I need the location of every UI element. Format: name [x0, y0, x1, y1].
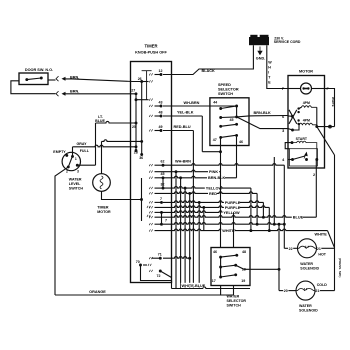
start switch mid terminal [305, 158, 308, 161]
junction yel-blk A column [219, 150, 222, 153]
svg-text:44: 44 [213, 100, 217, 104]
wire P left [288, 88, 301, 90]
contact gap row 7b [149, 211, 152, 213]
cold water solenoid [296, 281, 315, 300]
water level terminal EMPTY [65, 154, 68, 157]
label BLUE backing [292, 215, 303, 219]
timer row 12 stub [155, 74, 162, 76]
svg-text:BLACK: BLACK [202, 69, 216, 73]
svg-text:BLUE: BLUE [293, 216, 304, 220]
wire 18 out [236, 265, 279, 269]
contact gap row 43 [149, 105, 152, 107]
speed sel contact B4 [235, 134, 238, 137]
svg-text:RED: RED [209, 192, 217, 196]
motor main winding 2 coil [299, 123, 317, 126]
wire YELLOW lower [162, 211, 234, 213]
svg-text:HOT: HOT [318, 252, 326, 256]
svg-text:71: 71 [158, 253, 162, 257]
contact gap row 49 [149, 129, 152, 131]
svg-text:WATER: WATER [69, 178, 82, 182]
contact gap row 48 [149, 115, 152, 117]
svg-text:BRN.: BRN. [70, 89, 79, 93]
vertical wire x=274.3 [273, 157, 275, 224]
wire cold right [320, 290, 335, 292]
wire 6 stub [288, 115, 292, 117]
contact gap row 72 [149, 270, 152, 272]
wire WH-BRN lower [163, 164, 284, 166]
vertical wire x=250.9 [250, 188, 252, 231]
protector dot L [302, 87, 304, 89]
svg-text:45: 45 [161, 172, 165, 176]
svg-text:4: 4 [282, 158, 285, 162]
contact gap purple2 row [149, 206, 152, 208]
svg-text:7: 7 [165, 219, 167, 223]
speed sel contact B1 [235, 105, 238, 108]
timer lower bus [141, 178, 143, 221]
timer row 70 stub [143, 264, 147, 266]
wire PURPLE 2 [155, 206, 270, 208]
wire 3 to winding2 [293, 125, 300, 130]
svg-text:BRN-BLK: BRN-BLK [208, 176, 226, 180]
wire WHITE plug drop [267, 45, 288, 88]
speed selector switch box [210, 98, 249, 146]
timer box [131, 62, 172, 283]
motor contact sw dn1 [297, 119, 299, 121]
junction 24 end [283, 223, 286, 226]
speed sel link B1-B2 [236, 106, 238, 117]
vertical wire x=263.4 [262, 202, 264, 217]
speed sel contact B3 [235, 123, 238, 126]
timer terminal 24 [160, 223, 163, 226]
timer row 45 stub [155, 177, 164, 179]
junction brn-blk [179, 176, 182, 179]
timer terminal 45 [162, 176, 165, 179]
timer junction 27b [135, 98, 138, 101]
vertical wire x=185.1 [184, 188, 186, 288]
wsel contact R3 [234, 273, 237, 276]
label YELLOW lower backing [222, 210, 238, 214]
wire hot left b [293, 247, 297, 249]
wire timer motor return [102, 191, 142, 199]
svg-text:46: 46 [239, 140, 243, 144]
svg-text:E: E [268, 81, 271, 85]
contact gap white row [149, 229, 152, 231]
junction pink [175, 170, 178, 173]
svg-text:62: 62 [161, 160, 165, 164]
svg-text:4PM: 4PM [303, 119, 310, 123]
svg-text:4PM: 4PM [303, 101, 310, 105]
vertical wire x=257.1 [256, 193, 258, 224]
water level terminal 1 FULL [71, 155, 74, 158]
contact gap row 45 [149, 177, 152, 179]
svg-text:PURPLE: PURPLE [225, 201, 241, 205]
wire 4 stub [288, 159, 293, 161]
svg-text:MOTOR: MOTOR [299, 70, 313, 74]
start switch enclosure [290, 149, 318, 166]
junction 18 cold [278, 268, 281, 271]
svg-text:25: 25 [132, 125, 136, 129]
svg-text:SERVICE CORD: SERVICE CORD [274, 40, 301, 44]
wire door switch right to connector [48, 79, 56, 81]
centrifugal switch blade B [289, 110, 297, 124]
vertical wire x=189.7 [189, 193, 191, 288]
vertical wire x=199.2 [198, 202, 200, 288]
timer row 71 stub [152, 257, 161, 259]
timer inner link 7b-24 [161, 212, 163, 224]
timer inner link 45-32 [162, 178, 164, 188]
stub row 27b [136, 99, 149, 101]
wsel stub right down [233, 286, 235, 296]
label YELLOW upper backing [205, 186, 221, 190]
wire speed sel A-col down [220, 137, 222, 145]
svg-text:36: 36 [139, 156, 143, 160]
wire term1 up [72, 147, 74, 156]
wire 72 diagonal [160, 271, 171, 278]
svg-text:COLD: COLD [317, 283, 328, 287]
vertical wire x=203.8 [203, 207, 205, 230]
timer terminal 70 [139, 264, 142, 267]
svg-text:26: 26 [138, 77, 142, 81]
wire BRN lower to timer [65, 93, 137, 95]
vertical wire x=180.6 [180, 178, 182, 289]
protector bar [304, 88, 309, 90]
contact gap row 27b [149, 99, 152, 101]
wire PINK [155, 170, 221, 172]
svg-text:WATER: WATER [300, 262, 313, 266]
vertical wire x=193.4 [192, 131, 194, 289]
junction white a [249, 229, 252, 232]
timer motor coil [100, 176, 103, 189]
wire junction diagonal to white bus [317, 127, 335, 155]
svg-text:GRAY: GRAY [76, 142, 87, 146]
timer terminal 72 [159, 270, 162, 273]
vertical wire x=236.5 [236, 146, 238, 178]
start winding left loop [285, 143, 292, 149]
service cord plug [249, 37, 269, 45]
wire WHITE-BLUE [172, 287, 251, 289]
svg-text:48: 48 [159, 110, 163, 114]
svg-text:WHITE: WHITE [331, 97, 335, 107]
wire ORANGE bottom [55, 294, 234, 296]
contact gap row 12 [149, 73, 152, 75]
hot water solenoid [298, 239, 317, 258]
vertical wire x=220.5 [220, 146, 222, 248]
svg-text:RED-BLU: RED-BLU [174, 125, 191, 129]
label PURPLE 1 backing [224, 200, 240, 204]
contact gap row 71 [149, 257, 152, 259]
motor contact sw up2 [297, 111, 299, 113]
wire cold left b [288, 290, 296, 292]
connector on motor common [329, 125, 332, 128]
motor contact sw dn2 [297, 123, 299, 125]
wire BLACK plug drop [163, 45, 253, 74]
water level terminal 3 [76, 164, 79, 167]
wire P to right bus [325, 89, 335, 127]
start switch terminal 4 [291, 158, 294, 161]
motor terminal 3 [291, 129, 294, 132]
wire cold left a [279, 290, 283, 292]
svg-text:SPEED: SPEED [218, 83, 231, 87]
label WHITE left backing [221, 229, 234, 233]
timer terminal 62 [162, 164, 165, 167]
contact gap row 7 [149, 201, 152, 203]
svg-text:WHITE-BLUE: WHITE-BLUE [182, 284, 206, 288]
wire WHITE row [155, 229, 328, 231]
stub row 26 [142, 81, 149, 83]
wire WH-BRN timer to speed selector [163, 105, 237, 107]
speed sel blade 2 [221, 116, 237, 119]
svg-text:3: 3 [282, 129, 284, 133]
wire hot left a [284, 247, 288, 249]
wsel blade 2 [221, 265, 236, 267]
svg-text:45: 45 [230, 118, 234, 122]
svg-text:FULL: FULL [80, 149, 90, 153]
junction blue [262, 216, 265, 219]
timer row 32 stub [155, 187, 164, 189]
junction 71 [188, 257, 191, 260]
hot water solenoid coil [298, 246, 317, 248]
wire junction to right bus [317, 126, 335, 128]
vertical wire x=233.5 [233, 212, 235, 247]
svg-text:PURPLE: PURPLE [225, 206, 241, 210]
wsel contact L2 [219, 266, 222, 269]
svg-text:47: 47 [213, 138, 217, 142]
motor contact sw up1 [297, 107, 299, 109]
sw up link [299, 107, 302, 108]
wire 71 out [163, 257, 190, 259]
svg-text:WH-BRN: WH-BRN [175, 160, 191, 164]
wire RED-BLU [163, 130, 193, 132]
motor box [288, 76, 325, 169]
contact gap pink row [149, 171, 152, 173]
svg-text:17: 17 [212, 279, 216, 283]
wsel contact L1 [219, 256, 222, 259]
start switch blade [293, 156, 306, 160]
timer terminal 12 [160, 73, 163, 76]
start switch actuator arrow [304, 153, 307, 159]
vertical wire x=279.0 [278, 224, 280, 290]
speed sel blade 4 [221, 135, 237, 137]
timer contact 28 [135, 149, 138, 152]
timer row 24 stub [155, 223, 162, 225]
wsel contact L3 [219, 276, 222, 279]
svg-text:7: 7 [160, 197, 162, 201]
timer contact 36 [140, 153, 143, 156]
wsel stub left down [220, 286, 222, 296]
wire yel-blk to A column [202, 151, 220, 153]
wire BRN-BLK middle [163, 176, 237, 178]
contact gap blue row [149, 216, 152, 218]
wire 70 down and right [141, 265, 172, 281]
speed sel contact A1 [219, 107, 222, 110]
svg-text:27: 27 [131, 89, 135, 93]
svg-text:6: 6 [282, 115, 284, 119]
svg-text:22: 22 [289, 247, 293, 251]
contact gap row 62 [149, 164, 152, 166]
svg-text:MOTOR: MOTOR [97, 210, 111, 214]
svg-text:P: P [327, 87, 330, 91]
sw dn link [299, 123, 300, 126]
svg-text:KNOB-PUSH OFF: KNOB-PUSH OFF [135, 51, 167, 55]
svg-text:(PRESS. SW.): (PRESS. SW.) [338, 258, 342, 277]
timer row 7b stub [155, 211, 162, 213]
speed sel contact B2 45 [235, 115, 238, 118]
timer terminal 71 [159, 257, 162, 260]
timer contact 25 [135, 122, 138, 125]
svg-text:1: 1 [75, 157, 77, 161]
svg-text:SELECTOR: SELECTOR [227, 299, 247, 303]
wire full row [73, 145, 137, 147]
wire YEL-BLK [163, 115, 202, 117]
start winding left terminal [291, 141, 294, 144]
wire white bus right side [334, 155, 336, 291]
svg-text:21: 21 [315, 289, 319, 293]
timer row 62 stub [155, 164, 164, 166]
timer junction busA full [135, 145, 138, 148]
contact gap lower bus a [147, 206, 150, 208]
wsel blade 1 [221, 255, 237, 257]
wire speed sel B-col down [236, 137, 238, 146]
door switch SW1 [19, 73, 48, 85]
wire PURPLE 1 [163, 201, 263, 203]
wire RED [155, 192, 258, 194]
wire lt.blue to term3 [77, 164, 95, 166]
svg-text:SELECTOR: SELECTOR [218, 87, 239, 91]
svg-text:BRN-BLK: BRN-BLK [254, 111, 272, 115]
svg-text:I: I [268, 71, 269, 75]
timer motor junction [140, 198, 143, 201]
wire P right [312, 88, 325, 90]
wire BRN-BLK speed to motor [237, 116, 288, 117]
wire hot right [321, 247, 334, 249]
svg-text:28: 28 [134, 151, 138, 155]
svg-text:ORANGE: ORANGE [89, 290, 106, 294]
motor junction windings [315, 125, 318, 128]
timer terminal 43 [160, 105, 163, 108]
svg-text:70: 70 [136, 260, 140, 264]
motor start winding coil [292, 141, 317, 159]
svg-text:2: 2 [66, 170, 68, 174]
svg-text:WHITE: WHITE [315, 232, 328, 236]
speed sel contact A3 [219, 125, 222, 128]
wire speed sel to motor 3 [237, 117, 293, 130]
wire white-blue drop [171, 281, 173, 289]
door switch blade [27, 78, 42, 80]
vertical wire x=269.3 [268, 207, 270, 230]
centrifugal switch blade A [289, 110, 297, 124]
svg-text:P: P [282, 87, 285, 91]
junction 24 c [278, 223, 281, 226]
wire BLUE [155, 216, 317, 218]
speed sel blade 1 [221, 106, 237, 109]
water level switch blade [68, 157, 72, 167]
wire GRAY upper [102, 140, 142, 142]
junction 24 b [273, 223, 276, 226]
label BRN-BLK middle backing [207, 176, 225, 180]
svg-text:PINK: PINK [209, 170, 218, 174]
svg-text:2: 2 [313, 173, 315, 177]
motor protector [301, 83, 312, 94]
svg-text:21: 21 [317, 247, 321, 251]
wsel contact R2 [234, 264, 237, 267]
timer bus B [141, 82, 143, 155]
wire BLACK row hops [162, 74, 164, 76]
contact gap row 32 [149, 187, 152, 189]
svg-text:SWITCH: SWITCH [227, 304, 242, 308]
svg-text:12: 12 [159, 69, 163, 73]
wire water level 2 down [55, 167, 68, 295]
timer row 48 stub [155, 115, 162, 117]
wire white diagonal to hot [328, 231, 335, 248]
timer contact 27 [135, 92, 138, 95]
svg-text:43: 43 [159, 100, 163, 104]
svg-text:48: 48 [242, 250, 246, 254]
svg-text:46: 46 [213, 250, 217, 254]
svg-text:WH-BRN: WH-BRN [184, 101, 200, 105]
door switch terminal left [25, 78, 28, 81]
svg-text:3: 3 [77, 170, 79, 174]
svg-text:SOLENOID: SOLENOID [300, 267, 319, 271]
wire yel-blk drop [201, 116, 203, 152]
timer terminal 7b [160, 211, 163, 214]
svg-text:DOOR SW. N.O.: DOOR SW. N.O. [25, 68, 53, 72]
speed sel contact A2 [219, 116, 222, 119]
motor terminal 6 [291, 115, 294, 118]
svg-text:SOLENOID: SOLENOID [299, 309, 318, 313]
label RED backing [208, 191, 217, 195]
contact gap row 26 [149, 80, 152, 82]
svg-text:19: 19 [241, 279, 245, 283]
timer terminal 7 [160, 201, 163, 204]
contact gap row 24 [149, 223, 152, 225]
cold water solenoid coil [296, 289, 315, 291]
timer cam bar [142, 71, 152, 100]
label WHITE-BLUE backing [181, 283, 204, 288]
wire row 24 [163, 223, 284, 225]
speed sel contact A4 [219, 136, 222, 139]
water level switch [62, 152, 80, 170]
vertical wire x=176.0 [175, 172, 177, 289]
start switch right terminal [315, 158, 318, 161]
door switch terminal right [40, 77, 43, 80]
junction red [188, 192, 191, 195]
timer row 49 stub [155, 130, 162, 132]
svg-text:BRN.: BRN. [70, 76, 79, 80]
connector on BRN wire 1 [56, 76, 59, 81]
svg-text:SWITCH: SWITCH [69, 187, 84, 191]
wire door switch loop left-down [11, 81, 56, 94]
connector on BRN wire 2 [56, 91, 59, 96]
svg-text:T: T [268, 76, 271, 80]
svg-text:TIMER: TIMER [144, 44, 157, 49]
wire motor terminal 2 down [315, 160, 317, 218]
svg-text:GND.: GND. [256, 57, 265, 61]
contact gap row 70 [148, 264, 151, 266]
speed sel blade 3 [221, 124, 237, 126]
wsel blade 3 [221, 275, 236, 277]
label PURPLE 2 backing [224, 205, 240, 209]
wire BRN upper to timer [65, 79, 142, 82]
junction purple1 [198, 201, 201, 204]
wire lt.blue drop [95, 123, 97, 165]
junction 24 a [256, 223, 259, 226]
wsel left column link [220, 257, 222, 277]
svg-text:20: 20 [284, 289, 288, 293]
wire YELLOW upper [163, 187, 251, 189]
svg-text:72: 72 [157, 274, 161, 278]
svg-text:W: W [268, 61, 272, 65]
svg-text:START: START [296, 137, 308, 141]
